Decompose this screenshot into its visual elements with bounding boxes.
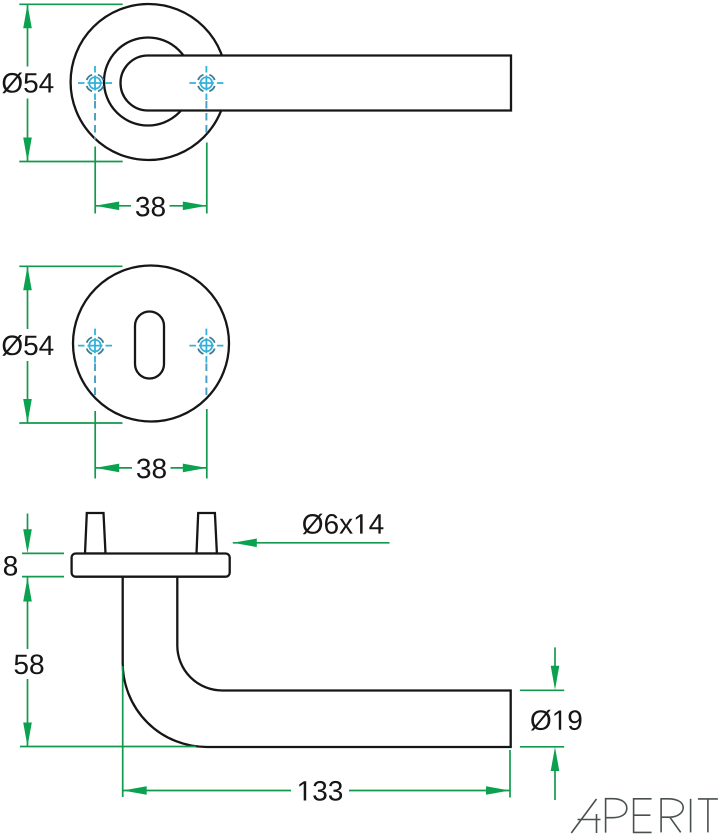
dimension 8 tick top bbox=[22, 552, 64, 554]
dimension Ø19 label bbox=[531, 710, 582, 731]
dimension 38 (middle view) arrow left bbox=[95, 464, 119, 473]
logo letter R bbox=[661, 799, 683, 833]
dimension 38 (middle view) extension line left bbox=[94, 411, 96, 479]
screw symbol left (top view) bbox=[78, 66, 112, 100]
dimension 133 arrow left bbox=[123, 786, 147, 795]
rose outer circle bbox=[71, 4, 227, 160]
dimension Ø54 (top view) extension line top bbox=[19, 3, 122, 5]
leader Ø6x14 line with arrow bbox=[233, 542, 390, 544]
dimension 8 upper arrow line bbox=[27, 514, 29, 530]
dimension 58 dimension line bbox=[27, 578, 29, 747]
dimension 133 arrow right bbox=[486, 786, 510, 795]
dimension Ø54 (top view) extension line bottom bbox=[19, 161, 122, 163]
logo letter A bbox=[571, 799, 600, 833]
screw centerline right (middle view) bbox=[205, 364, 207, 399]
extension line handle bottom left bbox=[20, 746, 196, 748]
dimension Ø54 (middle view) extension line bottom bbox=[19, 422, 122, 424]
right screw post bbox=[197, 513, 217, 554]
dimension Ø19 upper arrow line bbox=[554, 647, 556, 666]
rose inner collar circle bbox=[104, 38, 192, 126]
dimension Ø54 (top view) arrow down bbox=[23, 138, 32, 162]
screw centerline left (top view) bbox=[94, 101, 96, 140]
dimension 133 label bbox=[299, 781, 342, 801]
dimension Ø54 (top view) arrow up bbox=[23, 4, 32, 28]
dimension Ø54 (middle view) label bbox=[2, 335, 53, 356]
dimension Ø54 (middle view) extension line top bbox=[19, 265, 122, 267]
dimension Ø19 extension line bottom bbox=[520, 746, 564, 748]
rose flange (side view) bbox=[72, 554, 230, 577]
dimension Ø54 (top view) dimension line bbox=[27, 4, 29, 161]
dimension 38 (middle view) label bbox=[137, 459, 166, 479]
screw symbol right (middle view) bbox=[189, 329, 223, 363]
dimension Ø54 (top view) label bbox=[2, 73, 53, 94]
dimension 8 label bbox=[4, 556, 17, 576]
dimension 38 (top view) extension line right bbox=[206, 143, 208, 214]
logo letter T bbox=[698, 799, 718, 833]
dimension Ø54 (middle view) dimension line bbox=[27, 266, 29, 423]
leader Ø6x14 label bbox=[303, 514, 384, 535]
keyhole slot bbox=[135, 312, 164, 379]
screw symbol left (middle view) bbox=[78, 329, 112, 363]
escutcheon circle bbox=[73, 266, 229, 422]
dimension Ø19 arrow down bbox=[551, 666, 560, 690]
dimension 8 tick bottom bbox=[22, 576, 64, 578]
dimension 133 extension line left bbox=[122, 666, 124, 797]
dimension 133 dimension line bbox=[123, 790, 510, 792]
dimension 38 (top view) arrow right bbox=[183, 202, 207, 211]
lever body (side view) bbox=[123, 577, 511, 747]
lever bar (top view) bbox=[120, 56, 511, 111]
dimension 58 label bbox=[15, 654, 44, 674]
dimension 58 arrow up bbox=[23, 578, 32, 602]
dimension Ø19 arrow up bbox=[551, 747, 560, 771]
dimension 58 arrow down bbox=[23, 723, 32, 747]
dimension Ø54 (middle view) arrow up bbox=[23, 266, 32, 290]
dimension Ø19 extension line top bbox=[520, 689, 564, 691]
dimension Ø54 (middle view) arrow down bbox=[23, 399, 32, 423]
dimension 38 (top view) arrow left bbox=[95, 202, 119, 211]
dimension 133 extension line right bbox=[509, 750, 511, 798]
screw centerline right (top view) bbox=[205, 101, 207, 136]
left screw post bbox=[85, 513, 106, 554]
APERIT logo bbox=[571, 799, 718, 833]
screw symbol right (top view) bbox=[189, 66, 223, 100]
dimension 38 (top view) dimension line bbox=[95, 205, 207, 207]
dimension 38 (top view) extension line left bbox=[94, 147, 96, 214]
logo letter I bbox=[690, 799, 692, 833]
dimension 38 (middle view) dimension line bbox=[95, 467, 207, 469]
dimension Ø19 lower arrow line bbox=[554, 771, 556, 801]
dimension 38 (top view) label bbox=[136, 197, 165, 217]
leader Ø6x14 arrow bbox=[233, 539, 257, 548]
dimension 38 (middle view) arrow right bbox=[183, 464, 207, 473]
logo letter E bbox=[634, 799, 652, 833]
dimension 8 arrow down bbox=[23, 529, 32, 553]
screw centerline left (middle view) bbox=[94, 364, 96, 400]
logo letter P bbox=[606, 799, 627, 833]
dimension 38 (middle view) extension line right bbox=[206, 409, 208, 479]
